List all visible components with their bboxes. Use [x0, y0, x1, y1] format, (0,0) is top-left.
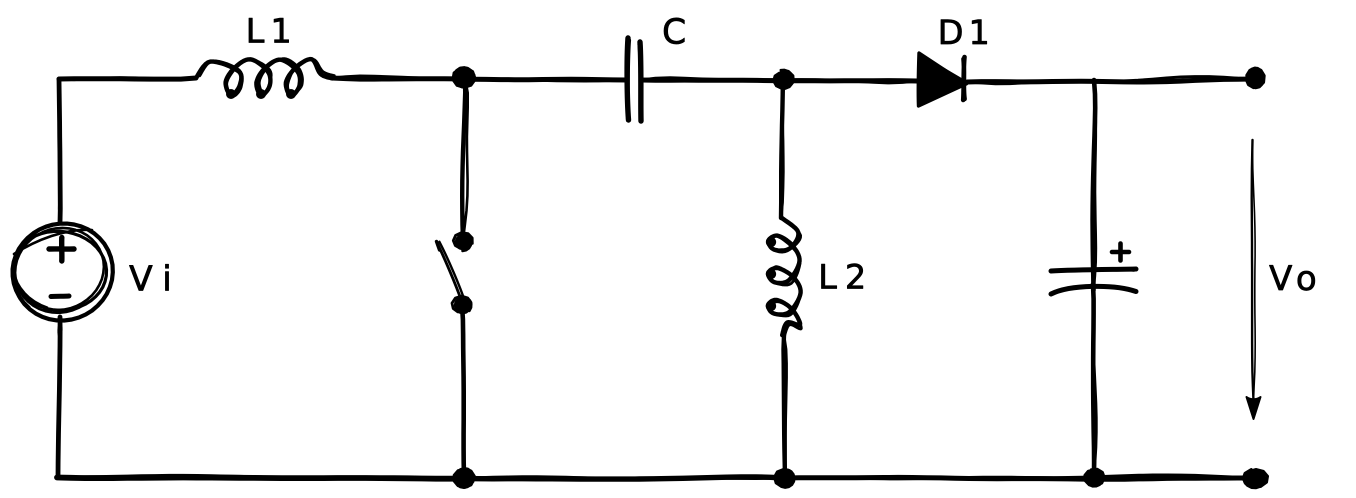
diode D1 cathode bar — [963, 57, 964, 100]
label C — [664, 18, 684, 44]
junction dot bottom of cap branch — [1085, 469, 1105, 486]
arrow Vo shaft — [1252, 140, 1256, 401]
wire left vertical top corner to source — [59, 79, 61, 223]
diode D1 triangle — [918, 53, 967, 106]
arrow Vo head — [1247, 397, 1261, 419]
wire left vertical source to bottom corner — [58, 317, 60, 477]
wire top-left from source corner to L1 — [59, 78, 196, 80]
label L1 — [249, 18, 289, 42]
junction dot bottom of L2 branch — [774, 469, 794, 487]
capacitor C left plate — [627, 38, 630, 120]
label Vi — [129, 264, 168, 290]
wire top from L1 to capacitor C — [332, 76, 627, 81]
junction dot top of L2 branch — [774, 70, 794, 89]
capacitor C right plate — [639, 42, 642, 121]
wire switch to bottom rail — [462, 305, 464, 477]
source minus sign — [51, 294, 69, 300]
output capacitor bottom curved plate — [1051, 286, 1136, 294]
label Vo — [1269, 265, 1314, 290]
wire switch branch from top junction — [462, 78, 468, 240]
label D1 — [941, 20, 987, 44]
wire bottom rail left section — [57, 475, 464, 479]
wire output cap to bottom rail — [1093, 284, 1096, 477]
label L2 — [821, 264, 862, 289]
wire bottom rail middle section — [464, 477, 785, 479]
inductor L1 — [196, 59, 334, 99]
wire output cap branch from top T — [1093, 80, 1096, 290]
junction dot bottom of switch branch — [454, 468, 474, 488]
wire L2 branch from top junction — [781, 79, 783, 218]
switch contact dot bottom — [452, 296, 471, 313]
output capacitor top plate — [1051, 269, 1136, 271]
wire L2 to bottom rail — [784, 335, 787, 477]
switch blade — [437, 242, 466, 304]
inductor L2 — [766, 218, 802, 336]
wire top from D1 to right terminal — [967, 77, 1252, 84]
voltage source Vi circle — [13, 224, 113, 321]
output capacitor plus sign — [1112, 244, 1129, 261]
source plus sign — [49, 238, 74, 262]
switch contact dot top — [453, 233, 472, 251]
wire bottom rail right section — [785, 475, 1252, 479]
wire top from C to diode D1 — [641, 78, 917, 83]
terminal dot top right — [1246, 68, 1264, 88]
terminal dot bottom right — [1243, 469, 1267, 488]
wire stub below source — [57, 322, 63, 338]
junction dot top of switch branch — [453, 67, 475, 87]
